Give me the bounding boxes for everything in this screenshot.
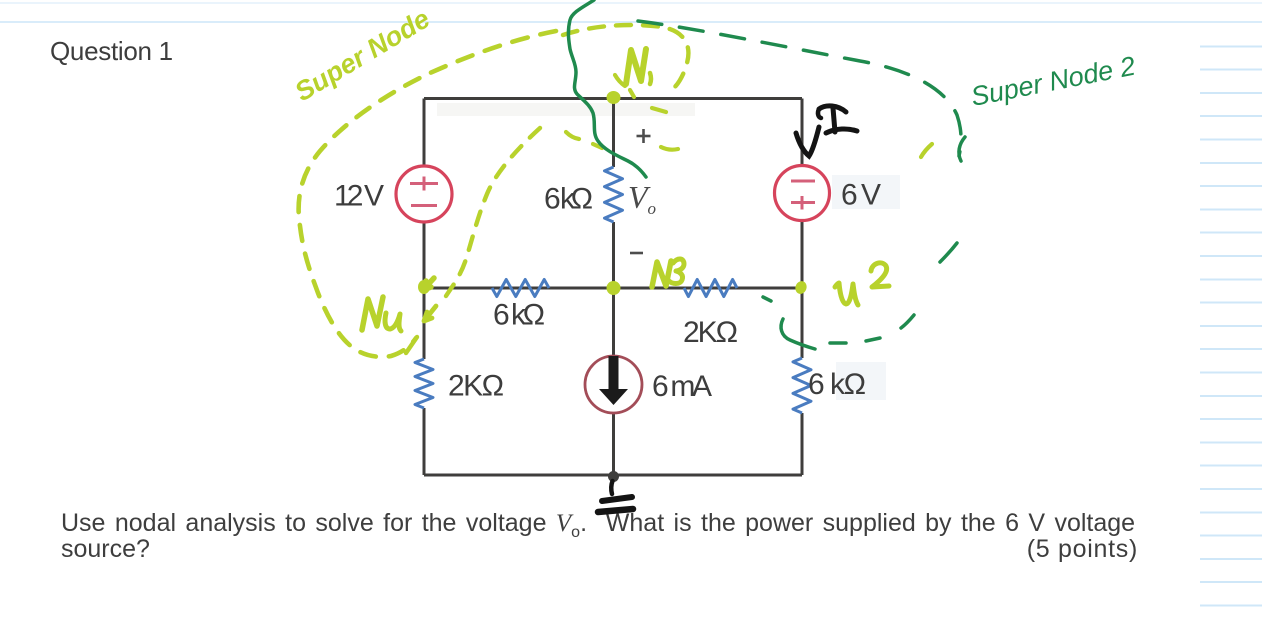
svg-text:6 kΩ: 6 kΩ: [808, 368, 866, 401]
svg-text:6 kΩ: 6 kΩ: [544, 183, 593, 216]
svg-text:2KΩ: 2KΩ: [448, 370, 504, 403]
svg-text:12 V: 12 V: [334, 180, 384, 213]
svg-text:6 V: 6 V: [841, 179, 881, 212]
svg-text:2KΩ: 2KΩ: [683, 316, 738, 349]
svg-text:Vo: Vo: [628, 179, 656, 218]
svg-text:Super Node: Super Node: [290, 3, 435, 107]
svg-text:6 kΩ: 6 kΩ: [493, 299, 545, 332]
svg-text:Super Node 2: Super Node 2: [968, 51, 1137, 112]
svg-text:6 mA: 6 mA: [652, 370, 712, 403]
